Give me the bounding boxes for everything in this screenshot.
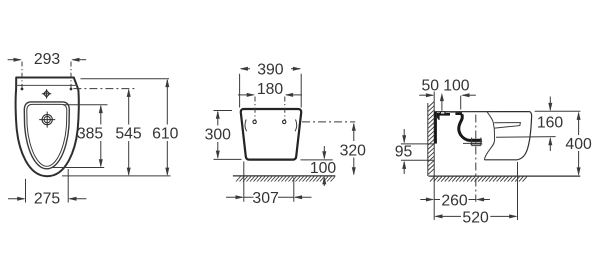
dim 320 line + arrows [353, 124, 355, 175]
dim 300 line + arrows [217, 112, 219, 158]
drain fitting [470, 138, 482, 146]
plan deck back edge line [16, 84, 78, 86]
dim 50 arrow [419, 94, 433, 96]
wall hatching [428, 102, 434, 175]
dim 307 arrows (outside) [226, 196, 243, 198]
svg-text:385: 385 [77, 126, 104, 143]
fixing hole left [21, 88, 24, 91]
dim 400 line + arrows [578, 113, 580, 175]
svg-text:400: 400 [565, 136, 592, 153]
dim 293 extension lines (dash-dot to fixing holes) [22, 62, 71, 89]
ref line top of bidet (610) [81, 78, 170, 80]
dim 293 right arrow [73, 59, 87, 61]
dim 545 vertical line + arrows [128, 90, 130, 175]
svg-text:320: 320 [340, 142, 367, 159]
dim 160 arrows (outside) [549, 97, 551, 110]
section break squiggle [484, 112, 494, 160]
wall left edge [427, 103, 429, 176]
middle floor line [233, 175, 335, 177]
svg-text:100: 100 [310, 160, 337, 177]
left shoulder curve [245, 120, 247, 132]
svg-text:390: 390 [257, 62, 284, 79]
dim 180 extension dash-dot lines [255, 97, 285, 121]
bowl outer rim [24, 102, 69, 169]
ref line bowl bottom [51, 167, 104, 169]
centerline dash-dot to right [302, 121, 355, 123]
rim wedge (seat surface edge-on) [494, 123, 520, 129]
ref line outer bottom [62, 175, 171, 177]
ref line top (160/400 upper ref) [535, 110, 581, 112]
body outline [241, 109, 301, 160]
wall face line (extends as extension line below floor) [433, 92, 435, 221]
dim 385 vertical line + arrows [100, 106, 102, 166]
right shoulder curve [295, 120, 297, 132]
svg-text:160: 160 [537, 115, 564, 132]
ref line bowl top (385) [63, 104, 108, 106]
dim 180 arrows (outside) [238, 94, 254, 96]
tap hole left [253, 120, 256, 123]
thick rim segment A [437, 113, 450, 116]
foot blob under rim at wall [437, 115, 440, 120]
ceramic back bar (section cut) [434, 112, 437, 144]
svg-text:520: 520 [462, 210, 489, 227]
thick rim segment B [455, 112, 462, 115]
svg-text:275: 275 [34, 191, 61, 208]
drain axis dash-dot [475, 115, 477, 202]
right floor line [429, 175, 581, 177]
middle floor hatching [236, 177, 335, 182]
svg-text:300: 300 [205, 127, 232, 144]
profile bottom edge [484, 159, 517, 161]
tap hole right [283, 120, 286, 123]
hole axis line with up arrow [441, 96, 443, 111]
bowl inner rim [27, 104, 67, 166]
svg-text:50: 50 [422, 78, 440, 95]
dim 260 right arrow [477, 199, 490, 201]
dim 100 body-bottom ref line [301, 159, 333, 161]
dim 260 left arrow [420, 199, 433, 201]
trap underside thin line [463, 142, 482, 144]
svg-text:545: 545 [115, 126, 142, 143]
fixing tab with slot [440, 111, 446, 115]
fixing hole right [70, 88, 73, 91]
dim 275 right arrow [70, 198, 87, 200]
profile top edge [434, 111, 530, 113]
svg-text:260: 260 [441, 192, 468, 209]
svg-text:307: 307 [252, 190, 278, 207]
dim 293 left arrow [8, 59, 21, 61]
dim 390 extension lines [240, 74, 302, 108]
dim 95 ref lines [401, 144, 434, 160]
dim 275 extension lines [26, 169, 69, 203]
dim 390 line + outward arrows [241, 68, 300, 70]
dim 95 arrows [403, 129, 405, 142]
dim 275 left arrow [8, 198, 24, 200]
dim 100 arrows [323, 146, 325, 158]
drain symbol (crosshair circle) [39, 112, 55, 128]
tap axis extension line [460, 96, 462, 110]
svg-text:100: 100 [443, 78, 470, 95]
dim 307 extension lines [244, 162, 294, 202]
svg-text:610: 610 [152, 126, 179, 143]
trap S section (thick) [459, 114, 482, 140]
svg-text:293: 293 [34, 51, 61, 68]
bidet plan outer outline [16, 78, 79, 177]
profile front face [517, 112, 531, 160]
ref centerline of holes (545, dash-dot) [73, 88, 135, 90]
dim 610 vertical line + arrows [166, 80, 168, 175]
tap hole symbol (diamond with crosshair) [42, 89, 51, 98]
svg-text:95: 95 [395, 144, 413, 161]
dim 307 line segments [244, 196, 294, 198]
svg-text:180: 180 [257, 81, 284, 98]
dim 520 line + outward arrows [436, 215, 517, 217]
dim 300 refs [214, 111, 242, 160]
ref line rim front level (160 lower ref) [496, 136, 556, 139]
right floor hatching [430, 177, 527, 182]
dim 260 line segments [434, 199, 476, 201]
thin deck line across tap hole gap [450, 111, 455, 113]
dim 520 right extension line [517, 162, 519, 220]
dim 100 top arrow [463, 94, 476, 96]
